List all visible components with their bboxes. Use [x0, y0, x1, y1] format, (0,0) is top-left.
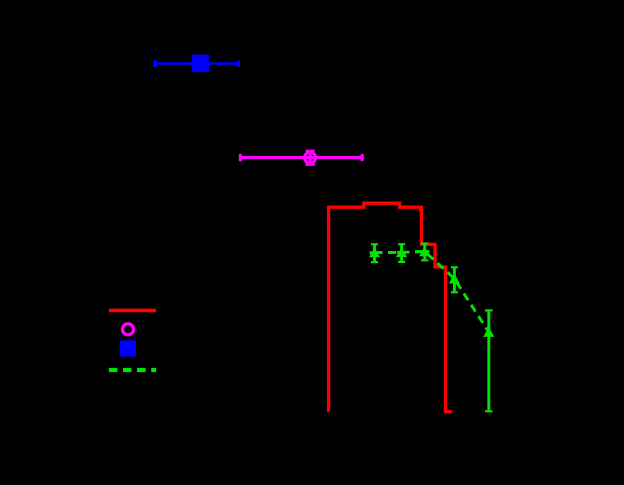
green point 2 top cap	[398, 243, 405, 245]
blue square marker	[192, 55, 209, 73]
green point 2 errorbar	[400, 244, 403, 263]
blue right cap	[237, 60, 240, 67]
blue errorbar line	[153, 62, 240, 65]
green point 2 triangle	[396, 247, 407, 257]
legend red line	[109, 309, 156, 313]
green point 1 x-bar	[370, 251, 382, 254]
magenta errorbar line	[239, 156, 364, 159]
green point 3 x-bar	[415, 250, 429, 253]
magenta left cap	[239, 154, 242, 161]
green point 3 triangle	[419, 246, 430, 256]
blue left cap	[153, 60, 157, 67]
green point 5 top cap	[485, 309, 493, 311]
green point 5 errorbar	[487, 310, 490, 412]
green point 1 errorbar	[373, 244, 376, 263]
green point 5 bottom cap	[485, 410, 493, 412]
green point 4 errorbar	[453, 267, 456, 293]
magenta right cap	[361, 154, 364, 161]
green point 4 bottom cap	[451, 291, 458, 293]
legend blue square	[120, 340, 136, 356]
legend magenta circle	[123, 324, 134, 335]
green point 1 triangle	[369, 248, 380, 258]
green point 4 top cap	[451, 266, 458, 268]
green point 3 bottom cap	[421, 259, 428, 261]
green point 3 top cap	[421, 242, 428, 244]
legend green dashed line	[109, 368, 156, 372]
green point 4 triangle	[449, 274, 460, 284]
magenta vertical errorbar	[309, 150, 312, 165]
red histogram	[329, 203, 452, 412]
red spur	[419, 207, 421, 211]
green point 1 top cap	[371, 243, 378, 245]
green point 3 errorbar	[423, 243, 426, 261]
magenta bottom cap	[306, 162, 315, 165]
magenta circle marker	[305, 152, 316, 163]
magenta top cap	[306, 150, 315, 153]
green point 2 bottom cap	[398, 261, 405, 263]
green point 1 bottom cap	[371, 261, 378, 263]
green point 5 triangle	[483, 327, 494, 337]
green point 2 x-bar	[397, 251, 406, 254]
green dashed connecting line	[375, 252, 489, 333]
